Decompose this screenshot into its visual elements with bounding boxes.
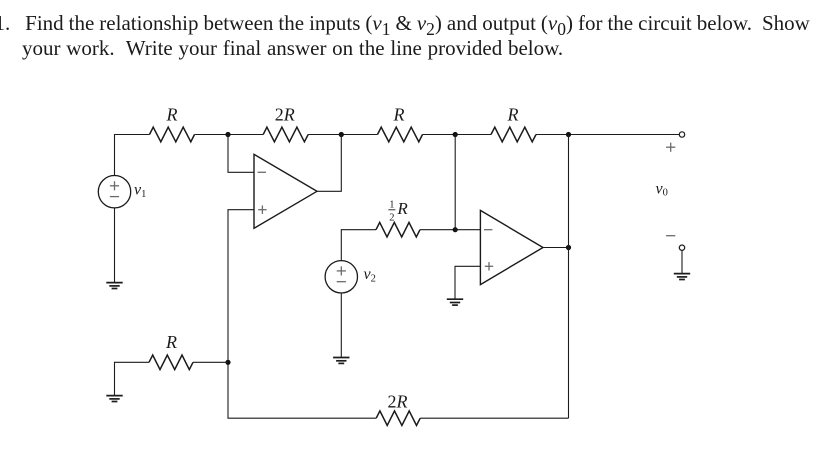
svg-text:2: 2 — [389, 212, 394, 223]
svg-text:2R: 2R — [275, 105, 295, 125]
svg-text:1: 1 — [389, 200, 394, 211]
svg-text:R: R — [396, 199, 408, 218]
svg-text:R: R — [165, 332, 177, 352]
svg-text:R: R — [507, 105, 519, 125]
svg-text:R: R — [166, 105, 178, 125]
svg-text:v1: v1 — [134, 182, 146, 200]
svg-text:2R: 2R — [388, 391, 408, 411]
svg-text:v2: v2 — [364, 266, 376, 284]
svg-text:v0: v0 — [656, 180, 668, 198]
svg-text:R: R — [393, 105, 405, 125]
